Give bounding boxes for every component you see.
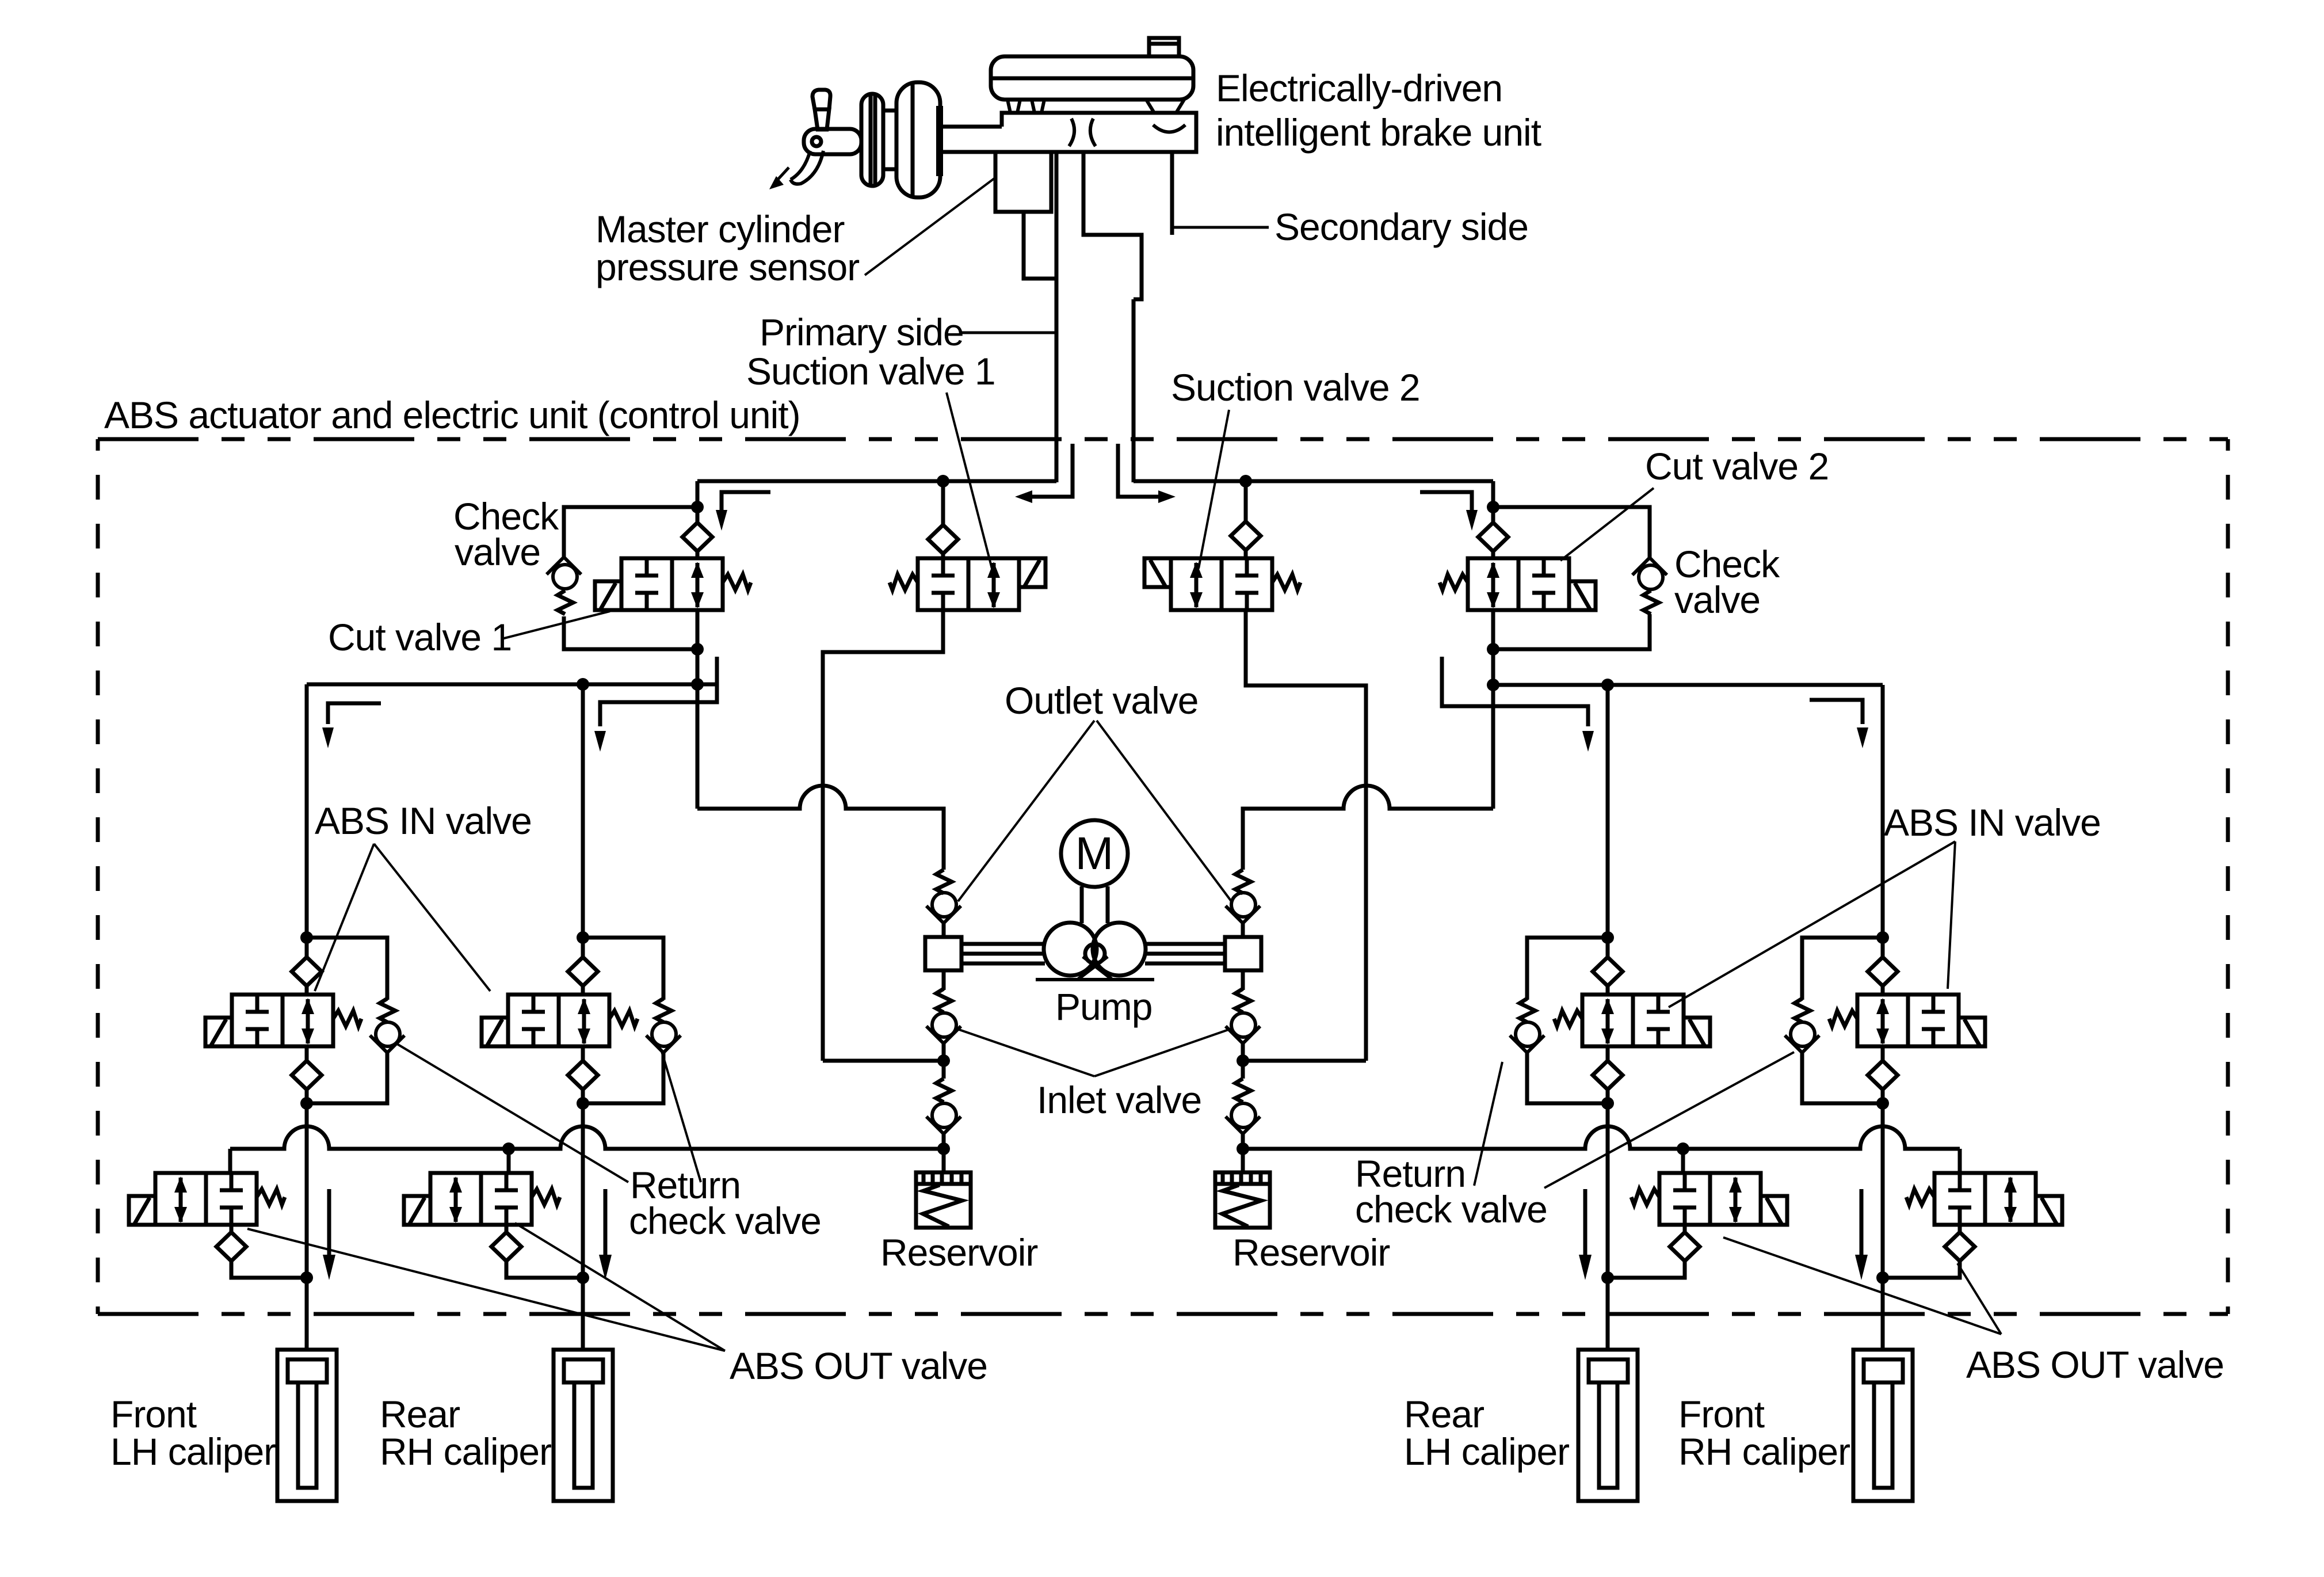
return check valve C spring bbox=[1520, 999, 1535, 1022]
wire: ABS IN D to lower diamond bbox=[1881, 1046, 1885, 1061]
pump piston left bbox=[925, 937, 961, 970]
filter diamond below ABS IN valve B bbox=[568, 1061, 598, 1090]
wire: ABS OUT 2 output to branch B bbox=[506, 1261, 583, 1278]
wire: diamond to suction valve 2 bbox=[1244, 550, 1248, 558]
node: branch C / ABS OUT 3 bbox=[1601, 1271, 1614, 1284]
wire: diamond to ABS IN valve A bbox=[305, 986, 309, 995]
wire: left return manifold (with bridges) bbox=[230, 1126, 944, 1149]
reservoir check valve 1 bbox=[926, 1103, 961, 1134]
leader: inlet valve left bbox=[959, 1030, 1094, 1076]
svg-text:Suction valve 2: Suction valve 2 bbox=[1171, 366, 1420, 409]
pushrod bbox=[881, 111, 1002, 169]
wire: cut valve 2 to outlet valve (with bridge over suction line) bbox=[1243, 786, 1493, 870]
wire: diamond to ABS IN valve C bbox=[1606, 986, 1610, 995]
flow arrow: secondary into right header bbox=[1118, 444, 1176, 503]
secondary side pipe bbox=[1132, 299, 1136, 482]
wire: manifold dot to ABS OUT 3 bbox=[1681, 1149, 1685, 1173]
node: branch B top of ABS IN bbox=[577, 931, 589, 944]
wire: lower diamond to node C bbox=[1606, 1090, 1610, 1103]
return check valve C bbox=[1510, 1022, 1544, 1053]
brake pedal lever bbox=[812, 90, 830, 129]
wire: manifold corner to ABS OUT 1 bbox=[228, 1149, 232, 1173]
node: manifold / ABS OUT 3 stem bbox=[1677, 1142, 1689, 1155]
node: branch A below ABS IN bbox=[300, 1097, 313, 1110]
node: cut valve 2 bypass bottom bbox=[1487, 643, 1499, 656]
svg-text:ABS OUT valve: ABS OUT valve bbox=[730, 1344, 987, 1387]
pump piston right bbox=[1225, 937, 1261, 970]
node: branch C below ABS IN bbox=[1601, 1097, 1614, 1110]
body lower ports bbox=[1024, 152, 1172, 299]
reservoir cap bbox=[1149, 38, 1179, 56]
return check valve D bbox=[1785, 1022, 1819, 1053]
check valve bypass around cut valve 1 bbox=[564, 507, 697, 649]
wire: right return manifold (with bridges) bbox=[1243, 1126, 1960, 1149]
wire: reservoir check 2 to reservoir bbox=[1241, 1134, 1245, 1173]
flow arrow: branch D to caliper bbox=[1855, 1189, 1868, 1280]
wire: right header bbox=[1134, 479, 1493, 483]
wire: suction valve 2 down-jog to pump suction bbox=[1246, 610, 1366, 1061]
solenoid valve: cut valve 1 bbox=[595, 558, 751, 610]
wire: inlet valve 2 to node bbox=[1241, 1043, 1245, 1079]
wire: front LH branch line bbox=[305, 684, 309, 938]
svg-text:Secondary side: Secondary side bbox=[1274, 205, 1528, 248]
node: cut valve 2 / branch wire bbox=[1487, 679, 1499, 691]
leader: return check C bbox=[1474, 1062, 1502, 1186]
wire: cut valve 1 bottom bbox=[696, 610, 700, 809]
wire: branch B dot to diamond bbox=[581, 938, 585, 957]
solenoid valve: suction valve 2 bbox=[1144, 558, 1300, 610]
wire: cut valve 2 bottom bbox=[1491, 610, 1495, 809]
leader: suction valve 2 bbox=[1199, 410, 1229, 569]
filter diamond below ABS OUT 1 bbox=[216, 1232, 246, 1261]
return check valve D spring bbox=[1795, 999, 1810, 1022]
leader: cut valve 2 bbox=[1560, 488, 1654, 561]
flow arrow: branch C to caliper bbox=[1579, 1189, 1592, 1280]
wire: lower diamond to node D bbox=[1881, 1090, 1885, 1103]
pedal blade bbox=[791, 151, 823, 184]
svg-text:ABS OUT valve: ABS OUT valve bbox=[1966, 1343, 2224, 1386]
leader: ABS IN valve C bbox=[1669, 841, 1955, 1007]
svg-text:Master cylinder: Master cylinder bbox=[596, 208, 844, 250]
wire: manifold corner to ABS OUT 4 bbox=[1958, 1149, 1962, 1173]
node: cut valve 1 / branch wire bbox=[691, 678, 704, 691]
inlet valve 2 (check) bbox=[1226, 1013, 1260, 1043]
node: cut valve 1 bypass bottom bbox=[691, 643, 704, 656]
body curve marks bbox=[1069, 119, 1185, 146]
return check valve B bbox=[646, 1022, 681, 1053]
wire: reservoir check 1 to reservoir bbox=[942, 1134, 946, 1173]
wire: header down to suction valve 2 bbox=[1244, 481, 1248, 523]
flow arrow: into front RH branch bbox=[1810, 700, 1868, 748]
node: suction join right bbox=[1237, 1054, 1249, 1067]
return check valve B spring bbox=[656, 999, 671, 1022]
return check bypass C bbox=[1527, 938, 1608, 1103]
master cylinder body bbox=[943, 113, 1196, 152]
svg-text:Cut valve 1: Cut valve 1 bbox=[328, 616, 512, 658]
spring of check valve 1 bbox=[558, 591, 573, 614]
pump piston rods left bbox=[961, 944, 1045, 963]
inlet valve 2 spring bbox=[1235, 989, 1251, 1012]
pump cross lines bbox=[1036, 957, 1154, 980]
leader: outlet valve left bbox=[958, 721, 1094, 901]
node: branch wire / rear LH line bbox=[1601, 679, 1614, 691]
wire: ABS OUT 3 output to branch C bbox=[1608, 1261, 1685, 1278]
solenoid valve: ABS OUT valve 3 bbox=[1631, 1173, 1787, 1225]
svg-text:LH caliper: LH caliper bbox=[110, 1430, 276, 1473]
leader: suction valve 1 bbox=[947, 393, 992, 569]
node: branch D top of ABS IN bbox=[1876, 931, 1889, 944]
wire: lower diamond to node bbox=[305, 1090, 309, 1103]
inlet valve 1 spring bbox=[936, 989, 952, 1012]
check valve (cut valve 1 bypass) bbox=[547, 557, 581, 589]
wire: right branch header bbox=[1493, 683, 1883, 687]
primary side pipe bbox=[1055, 279, 1059, 482]
flow arrow near cut valve 2 bbox=[1420, 492, 1478, 531]
inlet valve 1 (check) bbox=[926, 1013, 961, 1043]
node: suction join left bbox=[937, 1054, 950, 1067]
node: branch A top of ABS IN bbox=[300, 931, 313, 944]
reservoir check 1 spring bbox=[936, 1079, 952, 1102]
leader: sensor bbox=[865, 178, 994, 275]
caliper: front RH bbox=[1853, 1350, 1913, 1501]
wire: suction valve 1 down-jog to pump suction bbox=[823, 610, 943, 1061]
dashed border of ABS actuator unit bbox=[98, 439, 2228, 1314]
wire: ABS IN B to lower diamond bbox=[581, 1046, 585, 1061]
filter diamond above cut valve 2 bbox=[1478, 523, 1508, 551]
outlet valve 2 (check) bbox=[1226, 893, 1260, 923]
reservoir 2 bbox=[1215, 1172, 1270, 1228]
wire: branch C dot to diamond bbox=[1606, 938, 1610, 957]
flow arrow: into front LH branch bbox=[322, 703, 381, 748]
reservoir check valve 2 bbox=[1226, 1103, 1260, 1134]
solenoid valve: ABS IN valve B bbox=[482, 995, 638, 1046]
booster seal plate bbox=[936, 106, 943, 176]
leader: ABS IN valve A bbox=[315, 844, 374, 991]
wire: pump piston 2 down bbox=[1241, 970, 1245, 990]
node: return manifold left bbox=[937, 1142, 950, 1155]
svg-text:pressure sensor: pressure sensor bbox=[596, 246, 859, 288]
wire: branch D dot to diamond bbox=[1881, 938, 1885, 957]
leader: outlet valve right bbox=[1097, 721, 1231, 901]
node: branch C top of ABS IN bbox=[1601, 931, 1614, 944]
wire: branch C down to caliper bbox=[1606, 1103, 1610, 1350]
check valve bypass around cut valve 2 bbox=[1493, 507, 1650, 649]
wire: ABS IN C to lower diamond bbox=[1606, 1046, 1610, 1061]
wire: diamond to suction valve 1 bbox=[941, 554, 945, 558]
svg-text:ABS actuator and electric unit: ABS actuator and electric unit (control … bbox=[104, 394, 800, 436]
svg-text:RH caliper: RH caliper bbox=[380, 1430, 551, 1473]
leader: ABS IN valve D bbox=[1948, 841, 1955, 989]
svg-text:Cut valve 2: Cut valve 2 bbox=[1645, 445, 1829, 487]
svg-text:Outlet valve: Outlet valve bbox=[1005, 679, 1199, 722]
svg-text:Front: Front bbox=[110, 1393, 197, 1435]
wire: outlet valve 2 to pump piston bbox=[1241, 923, 1245, 937]
solenoid valve: ABS IN valve C bbox=[1554, 995, 1710, 1046]
pump eccentric circles bbox=[1044, 923, 1146, 976]
reservoir ports bbox=[1008, 100, 1184, 113]
wire: left header bbox=[697, 479, 1056, 483]
pedal clevis bar bbox=[804, 129, 861, 154]
leader: ABS OUT left 2 bbox=[515, 1223, 725, 1351]
wire: manifold dot to ABS OUT 2 bbox=[507, 1149, 511, 1173]
node: branch B / ABS OUT 2 bbox=[577, 1271, 589, 1284]
filter diamond above ABS IN valve D bbox=[1868, 957, 1898, 986]
spring of check valve 2 bbox=[1643, 591, 1659, 614]
wire: front RH branch line bbox=[1881, 685, 1885, 938]
wire: diamond to ABS IN valve B bbox=[581, 986, 585, 995]
return check bypass B bbox=[583, 938, 663, 1103]
wire: suction line 2 into node bbox=[1243, 1059, 1366, 1063]
wire: diamond to ABS IN valve D bbox=[1881, 986, 1885, 995]
svg-text:Primary side: Primary side bbox=[760, 311, 964, 353]
wire: header down to cut valve 1 bbox=[696, 481, 700, 523]
svg-text:Rear: Rear bbox=[380, 1393, 460, 1435]
svg-text:Pump: Pump bbox=[1055, 985, 1152, 1028]
check valve (cut valve 2 bypass) bbox=[1632, 558, 1667, 589]
wire: ABS OUT 1 to diamond bbox=[230, 1225, 234, 1232]
solenoid valve: ABS IN valve D bbox=[1829, 995, 1985, 1046]
outlet valve 1 spring bbox=[936, 870, 952, 893]
filter diamond below ABS OUT 4 bbox=[1945, 1232, 1975, 1261]
wire: cut valve 1 to outlet valve (with bridge over suction line) bbox=[697, 786, 944, 870]
leader: return check B bbox=[662, 1052, 701, 1182]
filter diamond above suction valve 2 bbox=[1231, 521, 1261, 550]
filter diamond above ABS IN valve B bbox=[568, 957, 598, 986]
pump piston rods right bbox=[1145, 944, 1225, 963]
return check bypass D bbox=[1802, 938, 1883, 1103]
svg-text:M: M bbox=[1075, 828, 1114, 879]
node: branch D below ABS IN bbox=[1876, 1097, 1889, 1110]
svg-text:check valve: check valve bbox=[1355, 1188, 1547, 1231]
wire: branch A dot to diamond bbox=[305, 938, 309, 957]
wire: ABS IN A to lower diamond bbox=[305, 1046, 309, 1061]
return check valve A bbox=[370, 1022, 404, 1053]
svg-text:Suction valve 1: Suction valve 1 bbox=[746, 350, 995, 393]
wire: ABS OUT 3 to diamond bbox=[1683, 1225, 1687, 1232]
booster small disc bbox=[861, 94, 883, 186]
wire: header down to cut valve 2 bbox=[1491, 481, 1495, 523]
leader: ABS OUT left 1 bbox=[247, 1229, 725, 1351]
svg-text:Electrically-driven: Electrically-driven bbox=[1216, 67, 1502, 109]
svg-text:Reservoir: Reservoir bbox=[880, 1231, 1037, 1274]
svg-text:Reservoir: Reservoir bbox=[1232, 1231, 1390, 1274]
leader: ABS OUT right 2 bbox=[1957, 1263, 2001, 1334]
filter diamond below ABS IN valve A bbox=[292, 1061, 322, 1090]
leader: return check A bbox=[395, 1043, 628, 1182]
master cylinder pressure sensor block bbox=[995, 152, 1051, 212]
return check valve A spring bbox=[380, 999, 395, 1022]
reservoir check 2 spring bbox=[1235, 1079, 1251, 1102]
solenoid valve: suction valve 1 bbox=[890, 558, 1045, 610]
flow arrow: branch B to caliper bbox=[599, 1189, 612, 1280]
leader: ABS IN valve B bbox=[374, 844, 490, 991]
solenoid valve: ABS OUT valve 2 bbox=[404, 1173, 560, 1225]
filter diamond above cut valve 1 bbox=[682, 523, 712, 551]
wire: header down to suction valve 1 bbox=[941, 481, 945, 525]
leader: ABS OUT right 1 bbox=[1723, 1237, 2001, 1334]
leader: cut valve 1 bbox=[502, 611, 610, 639]
filter diamond above ABS IN valve A bbox=[292, 957, 322, 986]
node: branch B below ABS IN bbox=[577, 1097, 589, 1110]
booster large disc bbox=[896, 82, 940, 197]
svg-text:ABS IN valve: ABS IN valve bbox=[1884, 801, 2101, 844]
pedal press arrow bbox=[769, 167, 789, 189]
svg-text:intelligent brake unit: intelligent brake unit bbox=[1216, 111, 1541, 154]
svg-text:Inlet valve: Inlet valve bbox=[1037, 1079, 1201, 1121]
caliper: front LH bbox=[277, 1350, 337, 1501]
node: branch A / ABS OUT 1 bbox=[300, 1271, 313, 1284]
wire: ABS OUT 2 to diamond bbox=[505, 1225, 509, 1232]
svg-text:valve: valve bbox=[455, 531, 540, 573]
wire: branch B down to caliper bbox=[581, 1103, 585, 1350]
leader: primary side bbox=[960, 332, 1055, 334]
caliper: rear RH bbox=[554, 1350, 613, 1501]
node: header / suction valve 2 bbox=[1239, 475, 1252, 487]
solenoid valve: ABS OUT valve 1 bbox=[129, 1173, 285, 1225]
return check bypass A bbox=[307, 938, 387, 1103]
wire: ABS OUT 4 to diamond bbox=[1958, 1225, 1962, 1232]
wire: branch D down to caliper bbox=[1881, 1103, 1885, 1350]
wire: ABS OUT 1 output to branch A bbox=[231, 1261, 307, 1278]
svg-text:RH caliper: RH caliper bbox=[1678, 1430, 1850, 1473]
solenoid valve: ABS IN valve A bbox=[205, 995, 361, 1046]
node: branch wire / rear RH line bbox=[577, 678, 589, 691]
solenoid valve: ABS OUT valve 4 bbox=[1906, 1173, 2062, 1225]
wire: inlet valve 1 to node bbox=[942, 1043, 946, 1079]
node: header / suction valve 1 bbox=[937, 475, 949, 487]
wire: rear RH branch line bbox=[581, 684, 585, 938]
wire: diamond to cut valve 1 bbox=[696, 551, 700, 558]
leader: inlet valve right bbox=[1094, 1030, 1228, 1076]
flow arrow near cut valve 1 bbox=[716, 492, 770, 531]
wire: rear LH branch line bbox=[1606, 685, 1610, 938]
outlet valve 2 spring bbox=[1235, 870, 1251, 893]
wire: lower diamond to node B bbox=[581, 1090, 585, 1103]
node: manifold / ABS OUT 2 stem bbox=[502, 1142, 515, 1155]
wire: ABS OUT 4 output to branch D bbox=[1883, 1261, 1960, 1278]
reservoir tank bbox=[991, 56, 1193, 100]
motor bbox=[1061, 820, 1128, 887]
motor shaft lines bbox=[1082, 886, 1108, 923]
flow arrow: cut valve 1 output (Z arrow) bbox=[594, 657, 717, 752]
wire: pump piston 1 down bbox=[942, 970, 946, 990]
svg-text:Front: Front bbox=[1678, 1393, 1765, 1435]
flow arrow: primary into left header bbox=[1015, 444, 1073, 503]
reservoir 1 bbox=[916, 1172, 971, 1228]
caliper: rear LH bbox=[1578, 1350, 1638, 1501]
wire: branch A down to caliper bbox=[305, 1103, 309, 1350]
filter diamond above ABS IN valve C bbox=[1593, 957, 1623, 986]
filter diamond above suction valve 1 bbox=[928, 525, 958, 554]
svg-text:ABS IN valve: ABS IN valve bbox=[315, 799, 532, 842]
wire: diamond to cut valve 2 bbox=[1491, 551, 1495, 558]
leader: secondary side bbox=[1172, 226, 1269, 229]
node: cut valve 1 top junction bbox=[691, 501, 704, 513]
flow arrow: cut valve 2 output (Z arrow) bbox=[1442, 657, 1594, 752]
filter diamond below ABS OUT 3 bbox=[1670, 1232, 1700, 1261]
svg-text:Rear: Rear bbox=[1404, 1393, 1484, 1435]
filter diamond below ABS OUT 2 bbox=[491, 1232, 521, 1261]
node: return manifold right bbox=[1237, 1142, 1249, 1155]
outlet valve 1 (check) bbox=[926, 893, 961, 923]
svg-text:valve: valve bbox=[1674, 578, 1760, 621]
flow arrow: branch A to caliper bbox=[323, 1189, 335, 1280]
svg-text:check valve: check valve bbox=[629, 1199, 821, 1242]
solenoid valve: cut valve 2 bbox=[1440, 558, 1596, 610]
filter diamond below ABS IN valve D bbox=[1868, 1061, 1898, 1090]
node: cut valve 2 top junction bbox=[1487, 501, 1499, 513]
leader: return check D bbox=[1544, 1052, 1794, 1188]
wire: left branch header bbox=[307, 683, 718, 687]
node: branch D / ABS OUT 4 bbox=[1876, 1271, 1889, 1284]
svg-text:LH caliper: LH caliper bbox=[1404, 1430, 1569, 1473]
filter diamond below ABS IN valve C bbox=[1593, 1061, 1623, 1090]
wire: suction line 1 into node bbox=[823, 1059, 944, 1063]
wire: outlet valve 1 to pump piston bbox=[942, 923, 946, 937]
